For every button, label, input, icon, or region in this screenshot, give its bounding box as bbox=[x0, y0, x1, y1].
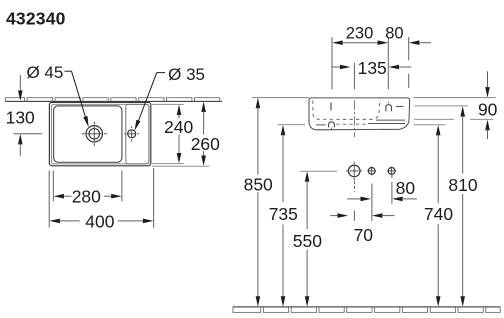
dimension 70 (centre to supply hole) bbox=[330, 213, 395, 245]
svg-text:70: 70 bbox=[354, 225, 374, 245]
svg-text:80: 80 bbox=[385, 24, 403, 42]
svg-text:260: 260 bbox=[191, 134, 220, 154]
water supply centre circle (front view) bbox=[346, 162, 362, 180]
svg-text:432340: 432340 bbox=[6, 9, 66, 29]
dimension 810 (deck height) bbox=[448, 106, 477, 307]
tap hole Ø35 (front view) bbox=[386, 102, 392, 112]
extension line basin bottom right bbox=[414, 124, 446, 126]
extension line 280 left bbox=[52, 171, 54, 202]
svg-text:230: 230 bbox=[346, 24, 374, 42]
floor section (tiled) bbox=[233, 307, 500, 313]
svg-text:280: 280 bbox=[72, 187, 101, 207]
extension line 280 right bbox=[121, 171, 123, 202]
dimension 850 (rim height) bbox=[244, 98, 273, 307]
svg-text:80: 80 bbox=[396, 178, 416, 198]
extension line 80 right bbox=[408, 37, 410, 88]
label Ø 35 with leader arrow bbox=[135, 65, 206, 131]
svg-text:850: 850 bbox=[244, 174, 273, 194]
basin rim line left extension bbox=[252, 97, 309, 99]
drain centreline (front view) bbox=[353, 100, 355, 137]
extension line 550 top bbox=[300, 170, 337, 172]
extension line rim right bbox=[414, 97, 497, 99]
supply hole right (front view) bbox=[387, 167, 396, 176]
dimension 400 (basin width) bbox=[49, 211, 153, 231]
dimension 240 (basin top to bowl front) bbox=[164, 105, 193, 164]
tap hole Ø45 (plan) bbox=[82, 122, 107, 147]
supply hole left (front view) bbox=[367, 167, 376, 176]
svg-text:130: 130 bbox=[6, 108, 35, 128]
dimension 735 (basin bottom height left) bbox=[269, 125, 298, 307]
svg-text:550: 550 bbox=[293, 231, 322, 251]
washbasin outline (front view) bbox=[309, 98, 410, 130]
extension line 70 left (dashed centreline) bbox=[353, 181, 355, 221]
dimension 80 (supply holes, middle) bbox=[347, 178, 417, 201]
tap hole Ø35 (plan) bbox=[124, 126, 139, 141]
dimension 740 (basin bottom height right) bbox=[424, 125, 453, 307]
extension line deck level right bbox=[414, 105, 468, 107]
dimension 550 (supply height) bbox=[293, 171, 322, 307]
washbasin outer outline (plan) bbox=[49, 102, 150, 165]
extension line 90 bottom bbox=[414, 118, 494, 120]
extension line 80 mid right bbox=[391, 175, 393, 204]
extension line 230 right bbox=[387, 37, 389, 89]
overflow hole mark (front view) bbox=[316, 122, 366, 129]
svg-text:90: 90 bbox=[478, 99, 498, 119]
extension line bowl front edge bbox=[152, 163, 184, 165]
washbasin inner rim line (plan) bbox=[52, 104, 149, 163]
dimension 90 (rim to deck) bbox=[478, 71, 498, 139]
extension line basin bottom left bbox=[278, 124, 305, 126]
extension line basin top edge bbox=[152, 103, 184, 105]
dimension 280 (bowl width) bbox=[54, 187, 122, 207]
dimension 260 (wall to basin front) bbox=[191, 102, 220, 167]
deck edge line (front view) bbox=[396, 106, 404, 108]
hidden bowl contour (dashed) bbox=[313, 101, 380, 120]
wall section (plan view, tiled) bbox=[6, 98, 223, 102]
svg-text:Ø 45: Ø 45 bbox=[26, 63, 63, 82]
dimension 80 (tap hole to edge, top) bbox=[385, 24, 431, 45]
label Ø 45 with leader arrow bbox=[26, 63, 88, 127]
extension line 400 right bbox=[153, 168, 155, 228]
extension line 135 left bbox=[353, 63, 355, 89]
svg-text:240: 240 bbox=[164, 117, 193, 137]
svg-text:810: 810 bbox=[448, 175, 477, 195]
part number label 432340 bbox=[6, 9, 66, 29]
dimension 130 (wall to tap hole centre) bbox=[6, 75, 42, 156]
dimension 230 (fixing to tap hole) bbox=[332, 24, 388, 45]
basin bowl outline (plan) bbox=[54, 106, 122, 162]
deck front edge lines (front view) bbox=[368, 120, 405, 123]
svg-text:400: 400 bbox=[85, 211, 114, 231]
svg-text:Ø 35: Ø 35 bbox=[168, 65, 205, 84]
fixing hole mark (front view) bbox=[330, 103, 332, 111]
extension line 230 left bbox=[331, 37, 333, 89]
tap deck outline (plan) bbox=[126, 104, 149, 163]
extension line 400 left bbox=[48, 171, 50, 228]
extension line basin front edge bbox=[152, 165, 210, 167]
extension line 70/80 middle bbox=[371, 184, 373, 221]
svg-text:135: 135 bbox=[358, 58, 387, 78]
svg-text:735: 735 bbox=[269, 204, 298, 224]
dimension 135 (centre to tap hole) bbox=[332, 58, 411, 78]
svg-text:740: 740 bbox=[424, 204, 453, 224]
